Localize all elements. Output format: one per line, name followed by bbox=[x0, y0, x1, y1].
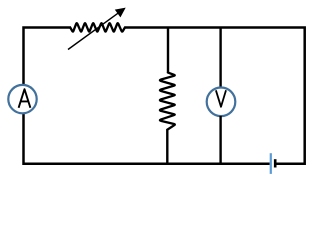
battery B1 short plate (black) bbox=[274, 159, 277, 167]
voltmeter V1 circle bbox=[207, 88, 236, 117]
wire: bottom rail left of battery and left rail lower section bbox=[24, 113, 270, 164]
variable resistor arrow head bbox=[115, 8, 126, 18]
variable resistor arrow shaft bbox=[68, 12, 119, 49]
wire: top rail to voltmeter V1 bbox=[219, 28, 221, 88]
voltmeter letter V bbox=[216, 90, 226, 107]
variable resistor RV1 coil body bbox=[70, 23, 125, 32]
ammeter letter A bbox=[19, 89, 31, 108]
resistor R1 coil bbox=[160, 73, 175, 130]
wire: top rail to resistor R1 bbox=[167, 28, 169, 74]
wire: top rail right of rheostat, right rail, bottom rail right of battery bbox=[125, 28, 305, 164]
wire: voltmeter V1 to bottom rail bbox=[219, 116, 221, 164]
ammeter A1 circle bbox=[8, 85, 36, 113]
wire: left rail top section and top-left rail bbox=[24, 28, 72, 85]
battery B1 long plate (blue) bbox=[270, 153, 272, 174]
wire: resistor R1 to bottom rail bbox=[166, 129, 168, 164]
